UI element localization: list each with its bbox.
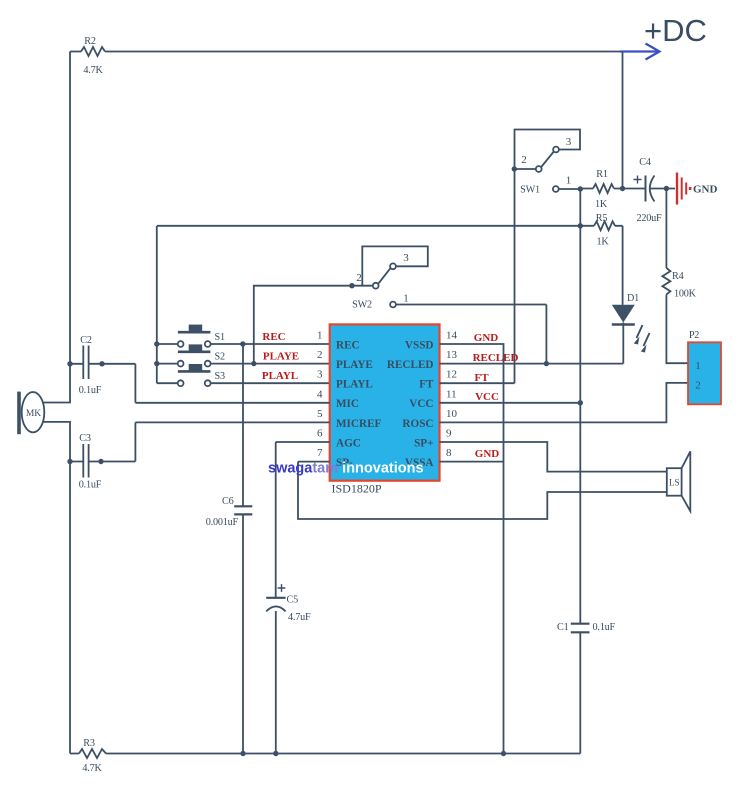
svg-text:0.1uF: 0.1uF (593, 622, 616, 633)
svg-text:C1: C1 (557, 622, 569, 633)
svg-text:AGC: AGC (336, 437, 361, 449)
svg-text:GND: GND (475, 448, 500, 460)
svg-text:VSSD: VSSD (405, 339, 434, 351)
svg-text:11: 11 (446, 388, 457, 400)
svg-text:PLAYL: PLAYL (336, 379, 373, 391)
wire pin4 MIC row (135, 402, 329, 404)
svg-text:6: 6 (317, 428, 323, 440)
wire +DC drop to C4 node (622, 52, 624, 189)
svg-text:1: 1 (317, 330, 323, 342)
svg-text:0.1uF: 0.1uF (79, 480, 102, 491)
capacitor C4 (623, 176, 676, 202)
svg-text:3: 3 (403, 252, 409, 264)
node dots R5/rail (578, 223, 583, 228)
wire rail y226 to R5 (157, 225, 623, 227)
svg-text:R1: R1 (596, 169, 608, 180)
wire pin13 RECLED row (440, 363, 624, 365)
svg-text:VCC: VCC (409, 398, 433, 410)
capacitor C3 (67, 422, 135, 477)
svg-text:GND: GND (693, 184, 718, 196)
svg-text:7: 7 (317, 447, 323, 459)
svg-text:REC: REC (262, 331, 285, 343)
wire pin12 FT row (440, 382, 515, 384)
svg-text:10: 10 (446, 408, 458, 420)
svg-text:+DC: +DC (644, 13, 707, 48)
connector P2 (688, 342, 721, 404)
wire pin6 AGC to C5 (276, 442, 330, 598)
svg-text:0.001uF: 0.001uF (206, 517, 239, 528)
svg-text:D1: D1 (627, 293, 639, 304)
resistor R4 (662, 189, 688, 364)
resistor R5 (594, 221, 615, 230)
svg-text:REC: REC (336, 339, 360, 351)
svg-text:14: 14 (446, 330, 458, 342)
switch SW2 (254, 246, 547, 363)
svg-text:swagatam innovations: swagatam innovations (268, 461, 424, 477)
svg-text:ROSC: ROSC (402, 418, 433, 430)
pushbutton S3 (157, 364, 330, 386)
svg-text:1K: 1K (595, 199, 608, 210)
svg-text:12: 12 (446, 369, 457, 381)
capacitor C5 (266, 584, 285, 756)
wire pin11 VCC row (440, 402, 581, 404)
svg-text:4.7uF: 4.7uF (288, 612, 311, 623)
resistor R3 (79, 749, 106, 758)
svg-text:4.7K: 4.7K (82, 763, 102, 774)
svg-text:LS: LS (669, 478, 680, 488)
capacitor C6 (234, 506, 252, 756)
LED D1 (612, 305, 650, 364)
svg-text:S1: S1 (215, 332, 225, 343)
svg-text:VCC: VCC (475, 391, 499, 403)
resistor R1 (580, 184, 622, 193)
svg-text:FT: FT (474, 372, 489, 384)
capacitor C2 (67, 346, 135, 403)
svg-text:SP+: SP+ (414, 437, 433, 449)
svg-text:MIC: MIC (336, 398, 359, 410)
svg-text:13: 13 (446, 349, 458, 361)
svg-text:1K: 1K (596, 237, 609, 248)
svg-text:3: 3 (317, 369, 323, 381)
microphone MK (17, 392, 44, 435)
svg-text:PLAYE: PLAYE (263, 351, 299, 363)
svg-text:R2: R2 (84, 36, 96, 47)
svg-text:MICREF: MICREF (336, 418, 382, 430)
svg-text:PLAYE: PLAYE (336, 359, 373, 371)
svg-text:1: 1 (566, 175, 572, 187)
svg-text:2: 2 (695, 380, 701, 392)
svg-text:3: 3 (566, 136, 572, 148)
svg-text:2: 2 (356, 272, 362, 284)
svg-text:4: 4 (317, 388, 323, 400)
switch SW1 (512, 130, 583, 192)
svg-text:220uF: 220uF (636, 213, 662, 224)
svg-text:R5: R5 (596, 213, 608, 224)
svg-text:PLAYL: PLAYL (262, 370, 298, 382)
node dot C4/+DC (620, 186, 625, 191)
svg-text:ISD1820P: ISD1820P (332, 482, 382, 496)
wire pin1 REC row (243, 343, 330, 345)
svg-text:4.7K: 4.7K (83, 65, 103, 76)
svg-text:100K: 100K (674, 289, 697, 300)
wire pin14 VSSD to ground rail (440, 344, 504, 754)
wire bottom rail (70, 753, 580, 755)
svg-text:SW2: SW2 (352, 300, 372, 311)
wire VCC vertical to C1 (579, 189, 581, 624)
svg-text:C6: C6 (222, 496, 234, 507)
wire SW1 pin2 down to FT (514, 169, 516, 383)
svg-text:1: 1 (695, 360, 701, 372)
svg-text:S3: S3 (215, 371, 225, 382)
svg-text:FT: FT (419, 379, 434, 391)
+DC arrow (620, 44, 660, 60)
wire top +DC rail (70, 51, 621, 53)
svg-text:5: 5 (317, 408, 323, 420)
wire left rail upper (R2 to mic top) (43, 52, 70, 403)
svg-text:RECLED: RECLED (473, 352, 519, 364)
wire mic bottom to left rail lower (43, 422, 70, 754)
wire buttons left vertical (156, 226, 158, 383)
ground GND symbol (677, 173, 691, 205)
wire pin10 ROSC to P2 pin2 (440, 383, 689, 423)
svg-text:C2: C2 (80, 335, 92, 346)
svg-text:1: 1 (403, 293, 409, 305)
svg-text:2: 2 (317, 349, 323, 361)
wire pin7 SP- loop to speaker bottom (298, 462, 667, 519)
svg-text:C3: C3 (79, 433, 91, 444)
wire D1 branch (622, 226, 624, 305)
pushbutton S1 (154, 325, 245, 347)
pushbutton S2 (154, 344, 330, 366)
svg-text:MK: MK (26, 409, 41, 419)
capacitor C1 (571, 624, 590, 754)
wire pin8 VSSA to ground vertical (440, 461, 504, 463)
svg-text:P2: P2 (689, 330, 699, 341)
wire pin5 MICREF row (135, 421, 329, 423)
svg-text:R3: R3 (83, 738, 95, 749)
svg-text:S2: S2 (215, 352, 225, 363)
svg-text:2: 2 (521, 154, 527, 166)
wire C6 vertical from REC node (242, 344, 244, 506)
svg-text:GND: GND (474, 332, 499, 344)
svg-text:RECLED: RECLED (387, 359, 434, 371)
svg-text:C5: C5 (287, 595, 299, 606)
svg-text:SW1: SW1 (520, 185, 540, 196)
wire pin9 SP+ to speaker top (440, 442, 667, 472)
resistor R2 (81, 47, 105, 56)
svg-text:R4: R4 (672, 271, 684, 282)
svg-text:C4: C4 (639, 157, 651, 168)
svg-text:9: 9 (446, 428, 452, 440)
IC U1 ISD1820P body (330, 324, 440, 480)
svg-text:8: 8 (446, 447, 452, 459)
svg-text:0.1uF: 0.1uF (79, 385, 102, 396)
loudspeaker LS (667, 451, 691, 511)
